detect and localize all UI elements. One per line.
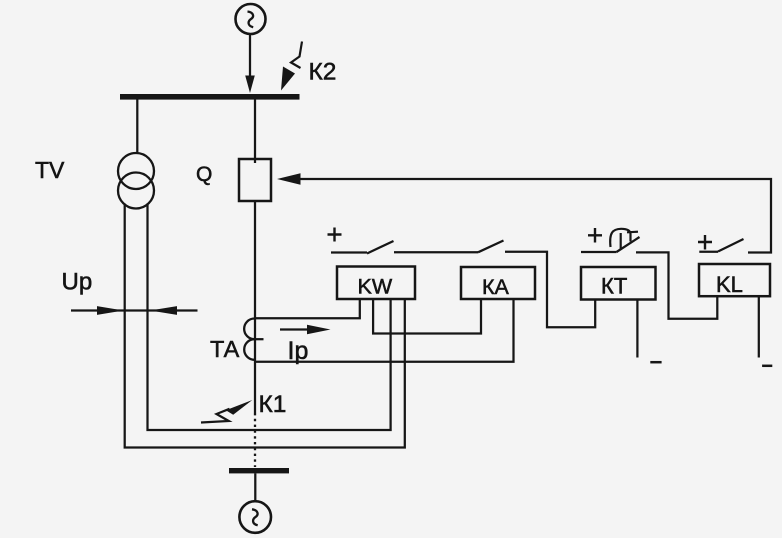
svg-text:Up: Up <box>62 269 93 296</box>
svg-text:К1: К1 <box>259 391 287 418</box>
svg-text:KL: KL <box>716 272 743 297</box>
minus KT <box>650 361 661 364</box>
relay KT <box>581 267 656 300</box>
TA secondary wire bottom <box>255 300 514 362</box>
KL pin minus wire <box>758 296 760 358</box>
contact KW <box>331 241 394 254</box>
source G top <box>236 4 266 34</box>
wire from source to busbar <box>249 34 251 78</box>
contact KL <box>699 239 743 252</box>
dotted feeder line <box>254 413 256 467</box>
svg-text:Ip: Ip <box>288 337 309 365</box>
wire busbar to source bottom <box>254 473 256 501</box>
relay KW <box>337 267 415 300</box>
Up dimension line <box>71 309 198 311</box>
Ip arrow <box>280 328 310 330</box>
TA middle stub <box>255 338 264 340</box>
svg-text:КА: КА <box>482 275 510 299</box>
Up dimension arrow left <box>97 306 124 315</box>
contact KA <box>478 241 504 253</box>
svg-text:К2: К2 <box>309 59 337 86</box>
TA secondary wire top <box>255 300 360 319</box>
KT pin minus wire <box>636 300 638 358</box>
KT time-delay symbol <box>610 229 630 247</box>
busbar top <box>120 94 300 100</box>
svg-text:TV: TV <box>35 157 65 183</box>
plus KW <box>328 228 342 242</box>
wire busbar to Q <box>254 100 256 164</box>
contact KT <box>581 237 640 252</box>
wire contact KT to KL coil <box>636 252 717 318</box>
svg-text:ТА: ТА <box>210 336 240 362</box>
transformer TV <box>118 153 154 189</box>
busbar bottom <box>229 468 289 473</box>
Up dimension arrow right <box>150 306 177 315</box>
K1 fault bolt <box>201 409 230 423</box>
svg-text:KW: KW <box>358 275 393 299</box>
source G bottom tilde <box>252 509 258 525</box>
arrow into busbar <box>245 76 255 94</box>
svg-text:КТ: КТ <box>601 274 627 299</box>
breaker Q <box>239 159 271 201</box>
wire contact KA to KT coil <box>505 252 595 328</box>
K2 fault bolt <box>291 42 302 69</box>
minus KL <box>762 365 772 368</box>
TV secondary wire left <box>125 204 405 448</box>
trip arrow into Q <box>277 173 301 185</box>
plus KT <box>588 228 602 243</box>
trip wire to Q <box>299 179 771 253</box>
TV secondary wire right <box>148 204 391 431</box>
plus KL <box>698 235 712 250</box>
CT TA <box>244 319 254 360</box>
KW pin 2 wire to KA <box>373 300 481 334</box>
relay KA <box>461 267 535 299</box>
wire Q to TA <box>254 201 256 413</box>
source G bottom <box>239 501 271 533</box>
relay KL <box>699 264 770 296</box>
source G top tilde <box>248 12 254 28</box>
wire busbar to TV <box>136 100 138 154</box>
wire contact KW to contact KA <box>394 251 478 253</box>
svg-text:Q: Q <box>196 163 212 186</box>
